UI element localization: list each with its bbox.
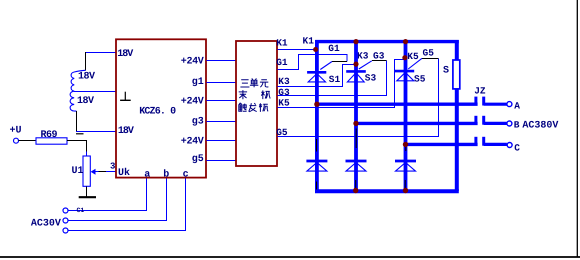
junction branch 2 top bus bbox=[353, 39, 358, 44]
char 板 bbox=[259, 103, 268, 112]
svg-text:K3: K3 bbox=[357, 51, 369, 62]
junction branch 3 bottom bus bbox=[403, 188, 408, 193]
svg-text:+24V: +24V bbox=[181, 137, 204, 148]
black stubs on branches bbox=[316, 182, 318, 190]
diode D3 bbox=[395, 161, 416, 171]
junction node K5 on branch 3 bbox=[402, 55, 407, 60]
junction phase A branch 1 bbox=[314, 102, 319, 107]
char 发 bbox=[249, 103, 257, 112]
svg-text:18V: 18V bbox=[77, 96, 94, 107]
junction phase B branch 2 bbox=[353, 121, 358, 126]
ground U1 bbox=[79, 196, 96, 198]
wire transformer top lead bbox=[85, 52, 117, 54]
wire +24V 1 bbox=[207, 60, 237, 62]
thyristor S3 bbox=[346, 61, 372, 82]
svg-text:AC30V: AC30V bbox=[31, 218, 61, 229]
wiper arrow U1 bbox=[95, 171, 99, 173]
contactor JZ phase C bbox=[476, 137, 507, 146]
transformer winding T1 bbox=[71, 70, 85, 91]
wire +U to R69 bbox=[19, 140, 36, 142]
char 元 bbox=[260, 80, 269, 87]
potentiometer U1 bbox=[83, 156, 90, 186]
wire +24V 2 bbox=[207, 100, 237, 102]
terminal +U bbox=[14, 138, 19, 143]
junction node K1 on branch 1 bbox=[313, 47, 318, 52]
right vertical lower bbox=[455, 89, 459, 191]
branch 3 bbox=[404, 41, 408, 192]
svg-text:B: B bbox=[514, 120, 520, 131]
branch 2 bbox=[354, 41, 358, 192]
frame border right bbox=[576, 0, 578, 257]
junction phase C branch 3 bbox=[403, 142, 408, 147]
wire R69 to U1 top bbox=[67, 141, 87, 152]
phase line C bbox=[406, 143, 478, 146]
terminal A bbox=[507, 102, 512, 107]
thyristor S1 bbox=[307, 62, 332, 82]
thyristor S5 bbox=[395, 58, 422, 81]
junction node K3 on branch 2 bbox=[353, 62, 358, 67]
svg-text:K1: K1 bbox=[276, 37, 288, 48]
wire G3 bbox=[277, 61, 386, 96]
terminal AC30V 1 bbox=[63, 208, 68, 213]
wire K3 bbox=[277, 65, 356, 87]
right vertical upper bbox=[455, 40, 459, 61]
wire G1 bbox=[277, 55, 347, 70]
branch 1 bbox=[315, 40, 319, 192]
svg-text:S1: S1 bbox=[329, 74, 341, 85]
ground tick transformer bbox=[76, 133, 84, 135]
bottom bus bbox=[315, 189, 459, 193]
phase line A bbox=[317, 102, 478, 105]
wire K1 bbox=[277, 49, 316, 51]
text 三单元 末极 触发板 bbox=[239, 78, 271, 112]
svg-text:a: a bbox=[144, 170, 150, 181]
svg-text:C: C bbox=[514, 142, 520, 153]
wire g5 bbox=[207, 160, 237, 162]
terminal B bbox=[507, 121, 512, 126]
wire pin b to AC30V bbox=[68, 179, 166, 221]
svg-text:3: 3 bbox=[110, 161, 115, 171]
wire pin c to AC30V bbox=[68, 179, 185, 231]
svg-text:G3: G3 bbox=[278, 87, 290, 98]
svg-text:S3: S3 bbox=[365, 73, 377, 84]
svg-text:+24V: +24V bbox=[181, 97, 204, 108]
wire g1 bbox=[207, 82, 237, 84]
svg-text:Uk: Uk bbox=[118, 167, 130, 179]
svg-text:G1: G1 bbox=[276, 57, 288, 68]
junction branch 2 bottom bus bbox=[353, 188, 358, 193]
svg-text:G5: G5 bbox=[423, 48, 435, 59]
char 三 bbox=[240, 80, 249, 87]
wire center tap bbox=[74, 91, 116, 93]
wire G5 bbox=[277, 59, 438, 137]
diode D1 bbox=[306, 161, 327, 171]
svg-text:g1: g1 bbox=[192, 77, 204, 88]
svg-text:S: S bbox=[443, 66, 449, 77]
svg-text:g5: g5 bbox=[192, 154, 204, 165]
svg-text:G3: G3 bbox=[373, 51, 385, 62]
wire stub pot top bbox=[86, 152, 88, 157]
terminal C bbox=[507, 143, 512, 148]
svg-text:R69: R69 bbox=[41, 130, 58, 141]
svg-text:G1: G1 bbox=[328, 43, 340, 54]
svg-text:K1: K1 bbox=[303, 36, 315, 47]
svg-text:S5: S5 bbox=[414, 73, 426, 84]
wire g3 bbox=[207, 121, 237, 123]
ground symbol inside KCZ bbox=[124, 92, 126, 100]
svg-text:18V: 18V bbox=[118, 126, 134, 137]
char 单 bbox=[250, 78, 258, 87]
svg-text:KCZ6. 0: KCZ6. 0 bbox=[139, 106, 176, 117]
snubber resistor S bbox=[453, 60, 460, 89]
svg-text:+24V: +24V bbox=[181, 56, 204, 67]
svg-text:K3: K3 bbox=[278, 76, 290, 87]
IC block trigger board bbox=[236, 41, 277, 166]
svg-text:18V: 18V bbox=[117, 49, 133, 60]
wire +24V 3 bbox=[207, 140, 237, 142]
wire transformer bottom lead bbox=[76, 111, 78, 132]
svg-text:g3: g3 bbox=[192, 117, 204, 128]
char 触 bbox=[239, 103, 247, 111]
svg-text:U1: U1 bbox=[72, 166, 84, 177]
contactor JZ phase B bbox=[476, 116, 507, 125]
top bus bbox=[315, 40, 459, 43]
svg-text:+U: +U bbox=[10, 125, 22, 136]
contactor JZ phase A bbox=[476, 97, 507, 106]
svg-text:C1: C1 bbox=[77, 207, 85, 214]
junction branch 3 top bus bbox=[403, 39, 408, 44]
frame border bottom bbox=[0, 256, 580, 258]
IC block KCZ6.0 bbox=[116, 39, 206, 177]
svg-text:AC380V: AC380V bbox=[522, 121, 558, 132]
phase line B bbox=[356, 122, 478, 125]
char 末 bbox=[239, 90, 247, 99]
svg-text:K5: K5 bbox=[407, 51, 419, 62]
wire U1 bottom bbox=[86, 186, 88, 196]
wire pin a to AC30V bbox=[68, 179, 146, 211]
resistor R69 bbox=[36, 138, 67, 144]
svg-text:18V: 18V bbox=[78, 72, 95, 83]
svg-text:A: A bbox=[514, 100, 520, 111]
terminal AC30V 2 bbox=[63, 218, 68, 223]
wire K5 bbox=[277, 60, 405, 108]
terminal AC30V 3 bbox=[63, 228, 68, 233]
diode D2 bbox=[346, 161, 367, 171]
char 极 bbox=[261, 90, 270, 99]
svg-text:JZ: JZ bbox=[474, 86, 486, 97]
